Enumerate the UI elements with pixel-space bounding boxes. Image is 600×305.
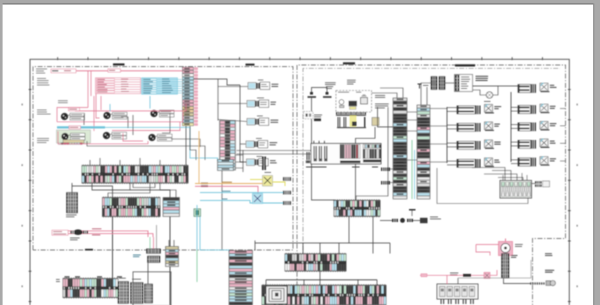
backup alarm module [518, 85, 531, 93]
gauge motor M1 [61, 113, 68, 120]
trunk start labels [201, 183, 208, 185]
ECM main connector block EB [311, 144, 381, 164]
diode assembly (yellow) [263, 176, 273, 187]
crossing connector at boundary [147, 249, 161, 253]
pink wire label cluster [96, 78, 141, 94]
lower connector stack L1 [118, 282, 129, 285]
wire sub-board to ECM strip J1 [378, 107, 394, 127]
sensor module S5 label [270, 159, 276, 162]
K risers down [348, 216, 350, 218]
cyan wire label cluster [142, 78, 178, 94]
injection solenoid V3 [457, 141, 475, 149]
rear electrical module R1 [518, 106, 531, 114]
chassis harness boundary label 1 [343, 62, 355, 64]
label above M1 [69, 108, 80, 111]
wires below block A [71, 183, 73, 193]
bulkhead pass-through column [229, 251, 253, 305]
tan backing panel behind gauge M4 [57, 130, 91, 143]
solenoid bus left [446, 107, 448, 163]
green/red drop wires [149, 237, 151, 249]
inline service connectors [392, 219, 398, 222]
frame zone tick marks [56, 57, 59, 60]
R4 lead wires [511, 159, 518, 161]
panel feed from lighter wire [457, 278, 459, 284]
wire loop into ECM block [356, 127, 376, 144]
alarm circle [486, 92, 492, 98]
K right wire to service loop [380, 220, 392, 222]
machine connector block D [285, 254, 346, 271]
R3 lead wires [511, 141, 518, 143]
inline connector left of J1 lower [381, 181, 390, 185]
TB side module [532, 183, 536, 185]
pink harness loop row2 [96, 94, 100, 118]
ground tee left of T stacks [418, 84, 421, 89]
rear electrical module R3 [518, 140, 531, 148]
pink inline marks [463, 274, 471, 277]
alternator tan box [372, 118, 379, 126]
TB top feeds [502, 175, 504, 181]
black risers to connector A [185, 126, 187, 165]
fuse-relay box FR [455, 75, 473, 92]
key switch wire (pink) [51, 70, 184, 72]
sensor module S1 [258, 79, 263, 82]
stack feed vertical [217, 79, 219, 121]
V2 lead wires [447, 124, 457, 126]
gauge motor M3 [151, 110, 158, 117]
chassis harness boundary label 2 [455, 64, 475, 66]
riser bundle strips to mid block [356, 107, 388, 200]
feeds down to transmission connector [472, 168, 505, 183]
cyan drop pair to bulkhead [196, 205, 198, 250]
fuse holder yellow band [350, 116, 356, 126]
platform relay panel [437, 284, 478, 299]
relay coil 1 [339, 100, 344, 105]
engine harness inner boundary [303, 68, 560, 260]
strip interconnect wires [407, 111, 417, 113]
lower stack labels [119, 277, 126, 280]
V4 lead wires [447, 160, 457, 162]
cab harness boundary label 1 [113, 63, 125, 65]
pink trunk low [195, 186, 258, 193]
top connector stack T2 [439, 77, 445, 80]
V1 lead wires [447, 107, 457, 109]
rear electrical module R2 [518, 123, 531, 131]
block G top labels [65, 276, 70, 277]
yellow wires [250, 179, 263, 181]
relay sub-board connector strip [336, 112, 366, 115]
transmission connector block TB [500, 181, 532, 199]
cross-region wire pair [237, 150, 312, 152]
battery bracket [312, 88, 328, 93]
sensor feed bus [240, 85, 247, 162]
R2 lead wires [511, 124, 518, 126]
ECM connector strip J2 [417, 105, 430, 199]
bottom boundary label [85, 249, 93, 251]
key switch wire label B [108, 69, 121, 72]
pump connector stack below [502, 254, 510, 257]
bus above E [266, 279, 377, 281]
cyan connector box [218, 160, 234, 171]
washer pink wires [476, 244, 499, 246]
schematic frame [30, 59, 569, 305]
sensor module S4 [256, 137, 262, 140]
rear electrical module R4 [518, 158, 531, 166]
far-right bus [510, 92, 512, 162]
pink feeder verticals [87, 71, 89, 108]
stack drop to bulkhead column [221, 171, 223, 251]
V3 lead wires [447, 142, 457, 144]
switch box contact cells [59, 143, 61, 145]
inline connector left of J1 upper [381, 168, 390, 172]
title text block top-left [36, 68, 47, 71]
top connector stack T1 [431, 77, 437, 80]
sub-board right pin [364, 117, 365, 127]
radio source label box [52, 230, 68, 235]
F1 feed wires [168, 240, 170, 247]
battery drop wire [312, 98, 335, 204]
ground symbol label low [314, 114, 322, 117]
label left column mid [37, 109, 47, 112]
chassis harness boundary (right dash-dot box) [297, 65, 566, 305]
tan switch box below M4 [63, 140, 84, 143]
ground stub [411, 210, 413, 216]
FR labels right [476, 76, 489, 77]
top interconnect wires [445, 82, 455, 84]
injection solenoid V1 [457, 106, 475, 114]
cyan trunk wire [57, 126, 105, 128]
mid-right floating label [545, 252, 552, 255]
cyan component X [253, 194, 263, 204]
gauge motor M6 [149, 134, 156, 141]
boundary crossing label [133, 254, 141, 257]
bulkhead connector block B [103, 198, 161, 217]
machine connector block E [262, 285, 386, 305]
pink harness loop row1 [57, 108, 88, 122]
relay sub-board top bus [336, 114, 366, 116]
EB right strip group [363, 145, 365, 149]
relay sub-board bottom bus [337, 127, 366, 129]
EB bottom labels [306, 167, 327, 168]
cigar lighter [546, 281, 551, 286]
cab harness boundary label 2 [246, 64, 255, 66]
sensor module S4 label [270, 141, 278, 144]
U-link under block A [133, 184, 155, 188]
lower connector stack L2 [131, 283, 144, 286]
J2 to bus feeds [430, 108, 447, 110]
small dashed box left of relay board [304, 112, 314, 119]
label left column low [37, 137, 49, 140]
relay contact [349, 101, 358, 106]
orange riser from connector column [198, 131, 200, 184]
relay panel pin legs [441, 299, 442, 304]
ecm label above relay box [347, 79, 356, 82]
margin zone letters [22, 104, 23, 106]
boundary pin connectors [283, 177, 291, 181]
trunk labels small [222, 190, 231, 193]
riser below boundary stack [147, 263, 149, 285]
relay box labels right [375, 94, 385, 97]
radio feed pink pair [68, 231, 148, 237]
gauge motor M5 [103, 132, 110, 139]
cyan trunk label [69, 126, 81, 129]
engine block connector K [334, 200, 380, 216]
pink pair labels [92, 227, 101, 230]
wiper pump motor [499, 242, 513, 256]
block G left labels [56, 278, 60, 281]
sensor module S2 [257, 97, 264, 100]
label left of M1 [58, 99, 68, 102]
R1 lead wires [511, 106, 518, 108]
antenna label [70, 237, 80, 240]
riser bus above D [254, 241, 256, 251]
sensor module S2 label [271, 101, 277, 104]
sub-board pin pair 1 [337, 117, 340, 127]
sub-board pin pair 2 [343, 117, 346, 127]
stack below boundary [148, 256, 161, 259]
cyan trunk pair low [200, 192, 291, 194]
relay box left text [326, 85, 333, 88]
sensor S5 pin strip [262, 157, 266, 171]
orange label [222, 181, 232, 184]
service connector CG [194, 209, 201, 217]
antenna inline connector [73, 229, 82, 235]
sensor module S1 label [272, 83, 279, 86]
pump label [515, 243, 523, 246]
instrument connector stack [220, 121, 236, 171]
gauge motor M4 [62, 133, 69, 140]
open frame box lower left [133, 272, 171, 305]
key switch wire label A [51, 69, 76, 73]
sensor module S5 [257, 155, 263, 158]
washer feed wire [504, 278, 531, 284]
lower-left harness connector block G [63, 279, 118, 298]
connector stack S6 [67, 193, 78, 196]
orange trunk [195, 183, 263, 185]
fuse stack C [163, 198, 180, 217]
pink X component [484, 272, 490, 278]
pump top pink stub [505, 239, 507, 242]
lower connector stack L3 [145, 284, 153, 287]
strip top feeds [372, 93, 398, 98]
bulkhead connector block A [82, 166, 188, 184]
matrix cell in E [266, 286, 287, 304]
EB left ground pins [307, 152, 308, 160]
injection solenoid V2 [457, 123, 475, 131]
module stub wires to boundary [560, 108, 566, 110]
gauge motor M2 [104, 112, 111, 119]
main down riser from B [112, 217, 114, 280]
cab harness boundary (left dash-dot box) [33, 67, 293, 250]
injection solenoid V4 [457, 159, 475, 167]
power label block left [37, 77, 46, 80]
green link wire [411, 140, 413, 199]
main cab connector column [183, 67, 194, 70]
panel feed pink wire [420, 270, 497, 275]
connector stack S6 label [66, 214, 77, 217]
coiled wire to lighter [530, 282, 531, 284]
sensor module S3 [257, 115, 263, 118]
relay box (dashed) [336, 91, 372, 113]
sensor module S3 label [271, 119, 279, 122]
long loop wire from ECM strip to TB [437, 168, 528, 204]
relay panel label [450, 272, 458, 275]
battery label [325, 81, 336, 84]
EB centre strip group [340, 145, 342, 159]
stack right-side vertical [242, 150, 244, 172]
ECM connector strip J1 [393, 98, 407, 199]
fuse block F1 [166, 247, 179, 267]
black wiring crossbars left [83, 114, 85, 125]
pump stack label [511, 254, 518, 257]
sub-board fuse element [352, 122, 357, 127]
breaker [361, 98, 368, 105]
